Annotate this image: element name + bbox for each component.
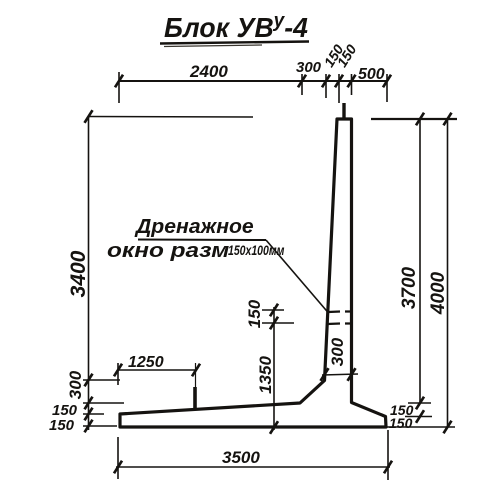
svg-text:150: 150 bbox=[389, 415, 413, 431]
title Блок УВу-4 bbox=[160, 10, 309, 47]
bottom 3500 dimension bbox=[116, 430, 390, 480]
column top pin bbox=[342, 103, 345, 119]
leader line bbox=[266, 240, 329, 313]
left dimension 3400/300/150/150 bbox=[83, 117, 253, 431]
block outline bbox=[120, 119, 386, 427]
svg-text:3500: 3500 bbox=[222, 448, 260, 467]
middle 150 / 1350 dimension bbox=[262, 307, 294, 430]
svg-text:Блок УВу-4: Блок УВу-4 bbox=[164, 10, 308, 44]
right dimensions 3700 / 4000 / 150 /150 bbox=[371, 119, 457, 427]
svg-text:4000: 4000 bbox=[428, 271, 449, 315]
svg-text:1350: 1350 bbox=[256, 356, 275, 394]
svg-text:300: 300 bbox=[66, 370, 85, 399]
top dimension chain bbox=[119, 72, 387, 103]
svg-text:2400: 2400 bbox=[189, 62, 228, 81]
1250 dimension bbox=[118, 363, 196, 385]
svg-text:300: 300 bbox=[296, 59, 322, 76]
svg-text:Дренажное: Дренажное bbox=[134, 216, 254, 238]
svg-text:3400: 3400 bbox=[67, 250, 90, 297]
slab pin bbox=[193, 387, 197, 408]
svg-text:150: 150 bbox=[49, 417, 75, 434]
drainage window dashed lines bbox=[328, 312, 353, 325]
svg-text:1250: 1250 bbox=[128, 354, 164, 371]
svg-text:3700: 3700 bbox=[399, 266, 420, 309]
svg-text:300: 300 bbox=[328, 337, 347, 366]
svg-text:500: 500 bbox=[358, 66, 385, 83]
svg-text:150: 150 bbox=[245, 299, 264, 328]
svg-text:окно разм: окно разм bbox=[107, 239, 230, 261]
300 column width dimension bbox=[322, 374, 358, 375]
slab pin extension bbox=[195, 363, 197, 390]
